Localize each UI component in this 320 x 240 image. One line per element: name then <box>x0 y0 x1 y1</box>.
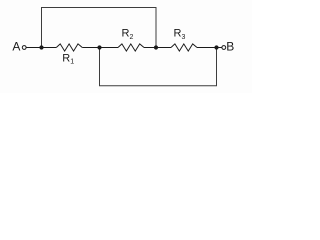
resistor R2 <box>118 44 144 51</box>
wire: node 4 to terminal B <box>217 47 222 49</box>
wire: top rail from node 1 up, across, down to node 3 <box>42 8 157 48</box>
svg-text:R3: R3 <box>174 28 186 41</box>
junction node 4 <box>214 45 218 49</box>
terminal B (open circle) <box>222 46 226 50</box>
resistor R1 <box>56 44 82 51</box>
svg-text:R1: R1 <box>62 53 74 66</box>
wire: R1 to node 2 <box>82 47 99 49</box>
wire: terminal A to node 1 <box>26 47 41 49</box>
wire: R3 to node 4 <box>197 47 217 49</box>
junction node 1 <box>39 45 43 49</box>
wire: node 2 to R2 <box>100 47 119 49</box>
wire: node 3 to R3 <box>156 47 171 49</box>
junction node 3 <box>154 45 158 49</box>
svg-text:A: A <box>12 40 20 54</box>
wire: node 1 to R1 <box>42 47 57 49</box>
wire: bottom rail from node 2 down, across, up to node 4 <box>100 48 217 86</box>
svg-text:B: B <box>226 40 234 54</box>
terminal A (open circle) <box>22 46 26 50</box>
resistor R3 <box>171 44 197 51</box>
svg-text:R2: R2 <box>122 28 134 41</box>
junction node 2 <box>97 45 101 49</box>
wire: R2 to node 3 <box>144 47 156 49</box>
